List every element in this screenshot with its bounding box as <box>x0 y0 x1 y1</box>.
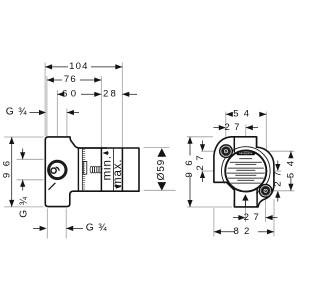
svg-text:Ø59: Ø59 <box>156 159 167 181</box>
svg-text:54: 54 <box>233 109 254 120</box>
svg-text:max.: max. <box>112 158 124 187</box>
svg-text:G ¾: G ¾ <box>86 223 108 234</box>
svg-text:28: 28 <box>103 89 118 100</box>
svg-text:27: 27 <box>244 212 264 223</box>
svg-text:27: 27 <box>195 151 206 171</box>
svg-text:104: 104 <box>69 61 89 72</box>
svg-text:27: 27 <box>272 167 283 187</box>
svg-text:G ¾: G ¾ <box>6 106 28 117</box>
svg-text:27: 27 <box>224 122 244 133</box>
svg-text:54: 54 <box>285 154 296 178</box>
svg-text:G ¾: G ¾ <box>19 196 30 218</box>
svg-text:96: 96 <box>184 154 195 178</box>
svg-text:82: 82 <box>233 226 254 237</box>
svg-text:hansgrohe: hansgrohe <box>239 151 253 155</box>
svg-text:96: 96 <box>2 154 13 178</box>
svg-text:76: 76 <box>64 74 77 85</box>
svg-text:60: 60 <box>62 89 79 100</box>
